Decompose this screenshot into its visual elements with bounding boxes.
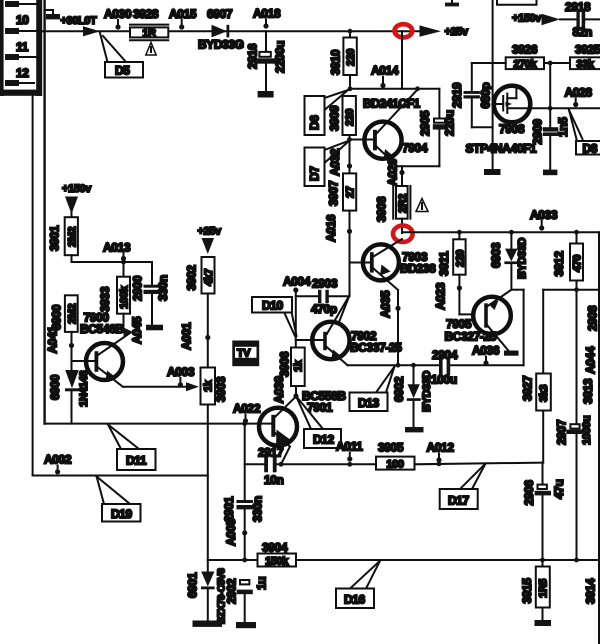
svg-text:1u: 1u — [255, 577, 269, 590]
ground for C2900 — [146, 325, 163, 331]
svg-text:D13: D13 — [358, 396, 380, 410]
svg-text:82n: 82n — [573, 25, 593, 39]
node A004 — [283, 275, 311, 293]
svg-text:A005: A005 — [224, 518, 238, 546]
svg-text:2908: 2908 — [586, 305, 600, 331]
ground for C2902 — [236, 622, 256, 628]
svg-text:33k: 33k — [576, 58, 594, 70]
junction 7901 collector on row — [279, 462, 284, 467]
svg-text:A035: A035 — [379, 290, 393, 318]
wire A014 rail — [348, 75, 440, 91]
svg-text:A030: A030 — [104, 7, 132, 21]
callout D17 — [440, 464, 486, 510]
callout D19 — [97, 477, 141, 522]
svg-text:6902: 6902 — [392, 376, 406, 402]
svg-text:6900: 6900 — [48, 374, 62, 400]
wire 7903 emitter down to A036 row — [397, 290, 399, 365]
svg-text:2900: 2900 — [131, 275, 145, 301]
transistor 7900 BC546B — [72, 333, 131, 387]
ground for 6902 — [405, 427, 424, 432]
svg-text:100u: 100u — [431, 373, 457, 387]
capacitor C2919 680p — [450, 63, 493, 127]
svg-text:1k: 1k — [203, 379, 215, 392]
svg-text:100: 100 — [386, 458, 403, 470]
svg-text:2919: 2919 — [450, 82, 464, 108]
svg-text:6907: 6907 — [207, 7, 233, 21]
wire A033 rail — [402, 230, 600, 235]
svg-text:3906: 3906 — [278, 351, 292, 377]
resistor 3902 4k7 — [202, 257, 216, 294]
svg-text:1n5: 1n5 — [556, 117, 570, 137]
svg-text:BC546B: BC546B — [80, 322, 124, 336]
svg-text:2917: 2917 — [258, 446, 284, 460]
wire 3902 to 3903 column — [207, 294, 209, 368]
diode 6907 BYD33G — [212, 25, 230, 38]
svg-text:3926: 3926 — [512, 43, 538, 57]
svg-text:+150v: +150v — [512, 13, 542, 25]
svg-text:3901: 3901 — [48, 225, 62, 251]
svg-text:BYD33D: BYD33D — [517, 238, 529, 279]
capacitor C2904 100u — [439, 358, 524, 376]
svg-text:TV: TV — [237, 348, 251, 360]
callout D16 — [336, 561, 380, 608]
svg-text:A001: A001 — [180, 322, 194, 350]
svg-text:2909: 2909 — [531, 119, 545, 145]
ground for 7905 — [504, 351, 519, 356]
wire 7904 emitter row — [397, 165, 440, 167]
wire 3911 to 7905 base — [459, 275, 473, 315]
ground for C2916 — [258, 91, 274, 98]
svg-text:+150v: +150v — [62, 183, 92, 195]
svg-text:2905: 2905 — [418, 110, 432, 136]
svg-text:3k3: 3k3 — [538, 385, 550, 402]
resistor 3900 2M2 — [65, 295, 79, 332]
diode 6903 BYD33D — [504, 232, 518, 290]
svg-text:6901: 6901 — [186, 572, 200, 598]
svg-text:330n: 330n — [251, 496, 265, 522]
svg-text:470p: 470p — [311, 302, 337, 316]
ground for MOSFET source — [484, 169, 501, 175]
node A041 — [46, 326, 75, 354]
svg-text:D7: D7 — [308, 166, 322, 181]
wire 7903 base column to 7902 collector — [339, 295, 350, 323]
svg-text:2M2: 2M2 — [67, 304, 79, 324]
svg-text:A012: A012 — [427, 441, 455, 455]
svg-text:A023: A023 — [434, 282, 448, 310]
svg-text:2907: 2907 — [555, 419, 569, 445]
node A018 — [253, 7, 281, 29]
node A032 — [328, 148, 352, 176]
svg-text:470: 470 — [572, 255, 584, 272]
svg-text:3927: 3927 — [521, 375, 535, 401]
node A036 — [472, 344, 500, 366]
flow arrow +150v down — [65, 197, 78, 215]
svg-text:2906: 2906 — [522, 480, 536, 506]
svg-text:7901: 7901 — [307, 401, 333, 415]
resistor 3933 100k — [117, 262, 131, 314]
svg-text:3902: 3902 — [185, 265, 199, 291]
svg-text:11: 11 — [16, 40, 29, 54]
svg-text:3909: 3909 — [328, 105, 342, 131]
svg-text:3933: 3933 — [98, 286, 112, 312]
svg-text:12: 12 — [16, 66, 29, 80]
wire +30LOT rail — [42, 30, 420, 32]
svg-text:3907: 3907 — [327, 180, 341, 206]
svg-text:330n: 330n — [156, 275, 170, 301]
svg-text:1000u: 1000u — [581, 416, 593, 445]
svg-text:1R5: 1R5 — [538, 579, 550, 598]
transistor 7902 BC337-25 — [312, 295, 349, 365]
red annotation circle on A033 node — [393, 226, 413, 242]
cut-off ground stub at top — [445, 0, 459, 6]
svg-text:3912: 3912 — [552, 251, 566, 277]
wire A004 node column — [296, 290, 323, 340]
svg-text:D11: D11 — [126, 454, 147, 468]
capacitor C2909 1n5 — [531, 117, 571, 170]
svg-text:A002: A002 — [44, 453, 72, 467]
svg-text:D6: D6 — [308, 115, 322, 130]
wire A022/D11 row — [45, 421, 260, 426]
svg-text:2916: 2916 — [246, 43, 260, 69]
diode 6900 1N4148 — [65, 370, 79, 424]
red annotation circle on +25v node — [395, 24, 413, 37]
capacitor C2905 220u — [418, 89, 457, 166]
callout D7 — [305, 141, 350, 187]
svg-text:2200u: 2200u — [273, 41, 287, 73]
svg-text:150k: 150k — [265, 555, 289, 567]
node A013 — [103, 241, 131, 262]
svg-text:A018: A018 — [253, 7, 281, 21]
node A028 — [565, 86, 593, 108]
node A035 — [379, 290, 401, 318]
ground for 6901 — [193, 621, 223, 627]
svg-text:A016: A016 — [324, 214, 338, 242]
node A016 — [324, 214, 352, 242]
svg-text:27: 27 — [345, 186, 357, 198]
warning triangle near 2R2 — [416, 199, 428, 212]
svg-text:2918: 2918 — [565, 0, 591, 14]
svg-text:10: 10 — [16, 13, 29, 27]
connector J1 body — [0, 0, 42, 96]
ground for 3915 — [535, 620, 552, 626]
svg-text:2904: 2904 — [432, 348, 458, 362]
node A033 — [530, 208, 558, 231]
resistor 3928 1R (double box) — [130, 25, 168, 41]
svg-text:220u: 220u — [443, 110, 457, 136]
flow arrow to +25v — [420, 25, 442, 36]
svg-text:3900: 3900 — [50, 304, 64, 330]
transistor 7904 base wire — [347, 135, 373, 173]
capacitor C2903 470p — [296, 290, 350, 303]
svg-text:220: 220 — [345, 49, 357, 66]
svg-text:3903: 3903 — [214, 376, 228, 402]
svg-text:1R: 1R — [142, 28, 156, 40]
svg-text:+25v: +25v — [198, 226, 222, 238]
svg-text:A028: A028 — [565, 86, 593, 100]
svg-text:220: 220 — [344, 109, 356, 126]
capacitor C2906 47u — [535, 463, 566, 560]
connector pin pad (pin 9) — [5, 1, 36, 7]
resistor 3911 220 — [453, 232, 466, 275]
svg-text:BC337-25: BC337-25 — [350, 341, 402, 355]
svg-text:D16: D16 — [344, 593, 366, 607]
capacitor C2902 1u — [237, 577, 269, 622]
callout D13 — [350, 367, 395, 412]
svg-text:A032: A032 — [328, 148, 342, 176]
resistor 3912 470 — [570, 232, 584, 290]
connector pin pad 11 — [5, 54, 36, 60]
svg-text:2R2: 2R2 — [397, 194, 409, 213]
wire 3903 down to bottom row — [207, 405, 209, 561]
node A005 — [224, 518, 247, 546]
svg-text:A004: A004 — [283, 275, 311, 289]
node A023 — [434, 282, 463, 310]
svg-text:3914: 3914 — [584, 578, 598, 604]
wire 7900 emitter row — [123, 386, 186, 388]
wire 3907 to 7903 base column — [349, 211, 351, 296]
svg-text:D19: D19 — [111, 507, 133, 521]
node A045 arrow — [124, 314, 134, 337]
resistor 3909 220 — [343, 96, 357, 135]
svg-text:BD241CF1: BD241CF1 — [363, 97, 421, 111]
MOSFET drain feed wire — [492, 0, 494, 169]
svg-text:STP4NA40F1: STP4NA40F1 — [466, 142, 537, 156]
callout D12 — [296, 396, 341, 448]
svg-text:680p: 680p — [479, 83, 493, 109]
wire A012 row — [415, 462, 544, 467]
transistor 7904 BD241CF1 — [364, 90, 417, 166]
flow arrow into 3903 — [186, 382, 199, 391]
resistor 3907 27 — [343, 173, 357, 210]
svg-text:A020: A020 — [386, 158, 400, 186]
wire 7905 collector jog to A036 row — [511, 290, 523, 366]
resistor 3926 270k — [506, 57, 544, 70]
svg-text:6903: 6903 — [489, 242, 503, 268]
svg-text:A003: A003 — [167, 365, 195, 379]
node A039 — [272, 376, 299, 404]
node A020 — [386, 158, 405, 186]
node A002 — [44, 453, 72, 475]
svg-text:A044: A044 — [584, 346, 598, 374]
capacitor C2907 1000u — [555, 290, 594, 560]
resistor 3906 1k — [291, 340, 305, 386]
svg-text:7908: 7908 — [499, 122, 525, 136]
flow arrow +25v down — [202, 238, 215, 254]
node A015 — [169, 7, 197, 30]
resistor 3915 1R5 — [536, 560, 550, 620]
resistor 3903 1k — [201, 368, 216, 405]
resistor 3908 2R2 (double box) — [393, 166, 410, 219]
svg-text:A041: A041 — [46, 326, 60, 354]
wire 2R2 to A033 junction — [401, 219, 403, 233]
node A014 — [371, 64, 399, 89]
svg-text:2901: 2901 — [222, 496, 236, 522]
svg-text:BYD33D: BYD33D — [421, 371, 433, 412]
warning triangle near D5 — [146, 43, 156, 56]
resistor 3905 100 — [376, 457, 415, 471]
svg-text:2M2: 2M2 — [67, 227, 79, 247]
callout D11 — [108, 425, 156, 471]
node A003 — [167, 365, 195, 387]
wire A022 column down — [244, 424, 246, 500]
wire bottom rail — [208, 558, 600, 563]
svg-text:A033: A033 — [530, 208, 558, 222]
svg-text:3904: 3904 — [262, 541, 288, 555]
capacitor C2917 10n — [245, 457, 376, 473]
wire 3906 to 7901 base — [295, 386, 297, 396]
svg-text:A014: A014 — [371, 64, 399, 78]
flow arrow +150v — [542, 14, 561, 25]
svg-text:4k7: 4k7 — [203, 269, 215, 286]
transistor 7905 BC327-25 — [473, 290, 511, 351]
wire 3900 to diode column — [71, 332, 73, 370]
svg-text:+25v: +25v — [445, 26, 469, 38]
callout D6 — [305, 90, 349, 135]
ground for C2909 — [543, 170, 557, 176]
svg-text:2903: 2903 — [312, 277, 338, 291]
svg-text:7904: 7904 — [402, 141, 428, 155]
svg-text:BD238: BD238 — [400, 262, 436, 276]
svg-text:+30L0T: +30L0T — [61, 15, 97, 27]
wire left bus to A002 row — [32, 96, 34, 475]
capacitor C2900 330n — [144, 262, 161, 325]
svg-text:3913: 3913 — [581, 378, 595, 404]
resistor 3927 3k3 — [536, 290, 551, 463]
wire A002/D19 row — [33, 475, 208, 477]
svg-text:A022: A022 — [233, 402, 261, 416]
node A001 — [180, 322, 211, 350]
node A022 — [233, 402, 261, 424]
capacitor C2918 82n — [560, 11, 600, 28]
wire 3912 bottom row — [543, 287, 600, 292]
capacitor C2901 330n — [237, 496, 265, 560]
transistor 7903 BD238 — [350, 239, 403, 290]
junction on rail at 3910 — [348, 29, 353, 34]
node A012 — [427, 441, 455, 463]
svg-text:220: 220 — [455, 250, 467, 267]
diode 6902 BYD33D — [407, 365, 421, 427]
svg-text:1k: 1k — [293, 359, 305, 372]
wire 270k to 33k with junction — [544, 61, 570, 66]
svg-text:BC327-25: BC327-25 — [445, 330, 497, 344]
svg-text:100k: 100k — [119, 285, 131, 309]
wire 33k junction down to A028 row — [549, 63, 551, 127]
svg-text:10n: 10n — [264, 473, 284, 487]
svg-text:3910: 3910 — [329, 49, 343, 75]
svg-text:D5: D5 — [115, 64, 130, 78]
svg-text:3905: 3905 — [378, 441, 404, 455]
resistor 3901 2M2 — [65, 212, 79, 255]
wire A028 row — [530, 106, 600, 111]
svg-text:D12: D12 — [313, 433, 335, 447]
connector pin pad 10 — [5, 28, 36, 34]
junction 7904 collector on rail — [415, 86, 420, 91]
wire gate row (270k left) — [472, 62, 506, 64]
callout D8 — [569, 110, 600, 156]
svg-text:47u: 47u — [552, 479, 566, 499]
svg-text:BYD33G: BYD33G — [198, 38, 244, 52]
svg-text:A011: A011 — [336, 440, 363, 454]
svg-text:D17: D17 — [448, 494, 470, 508]
vertical bus wire from top to D11 wire — [43, 0, 45, 424]
svg-text:3925: 3925 — [575, 43, 600, 57]
svg-text:A015: A015 — [169, 7, 197, 21]
svg-text:A039: A039 — [272, 376, 286, 404]
svg-text:2902: 2902 — [225, 578, 239, 604]
svg-text:3915: 3915 — [520, 578, 534, 604]
svg-text:D10: D10 — [262, 299, 284, 313]
flow arrow on +30LOT rail — [83, 26, 100, 36]
TV icon — [232, 341, 259, 367]
resistor 3925 33k — [570, 57, 600, 70]
svg-text:A036: A036 — [472, 344, 500, 358]
cut-off box D4 at top — [497, 0, 537, 5]
wire +25v node down to A014 rail — [401, 31, 403, 89]
wire A013 row — [72, 255, 153, 264]
zener diode 6901 BZX79-C5V6 — [201, 560, 215, 621]
svg-text:1N4148: 1N4148 — [78, 371, 90, 407]
svg-text:A045: A045 — [130, 316, 144, 344]
svg-text:3911: 3911 — [437, 251, 451, 276]
MOSFET 7908 — [494, 86, 531, 123]
+30LOT stub pad — [45, 10, 60, 19]
svg-text:A013: A013 — [103, 241, 131, 255]
transistor 7901 BC558B — [259, 397, 297, 465]
wire A036 row (7902 emitter to 7905 jog) — [348, 363, 440, 368]
capacitor C2916 2200u — [246, 31, 288, 91]
node A011 — [336, 440, 363, 467]
callout D10 — [252, 297, 297, 336]
svg-text:D8: D8 — [583, 142, 598, 156]
connector pin pad 12 — [5, 80, 34, 86]
svg-text:3928: 3928 — [133, 7, 159, 21]
right edge bus wire — [598, 232, 600, 644]
svg-text:270k: 270k — [513, 58, 537, 70]
resistor 3910 220 — [343, 31, 357, 75]
node A030 — [104, 7, 132, 30]
svg-text:3908: 3908 — [375, 196, 389, 222]
resistor 3904 150k — [258, 554, 297, 568]
callout D5 — [100, 33, 143, 78]
